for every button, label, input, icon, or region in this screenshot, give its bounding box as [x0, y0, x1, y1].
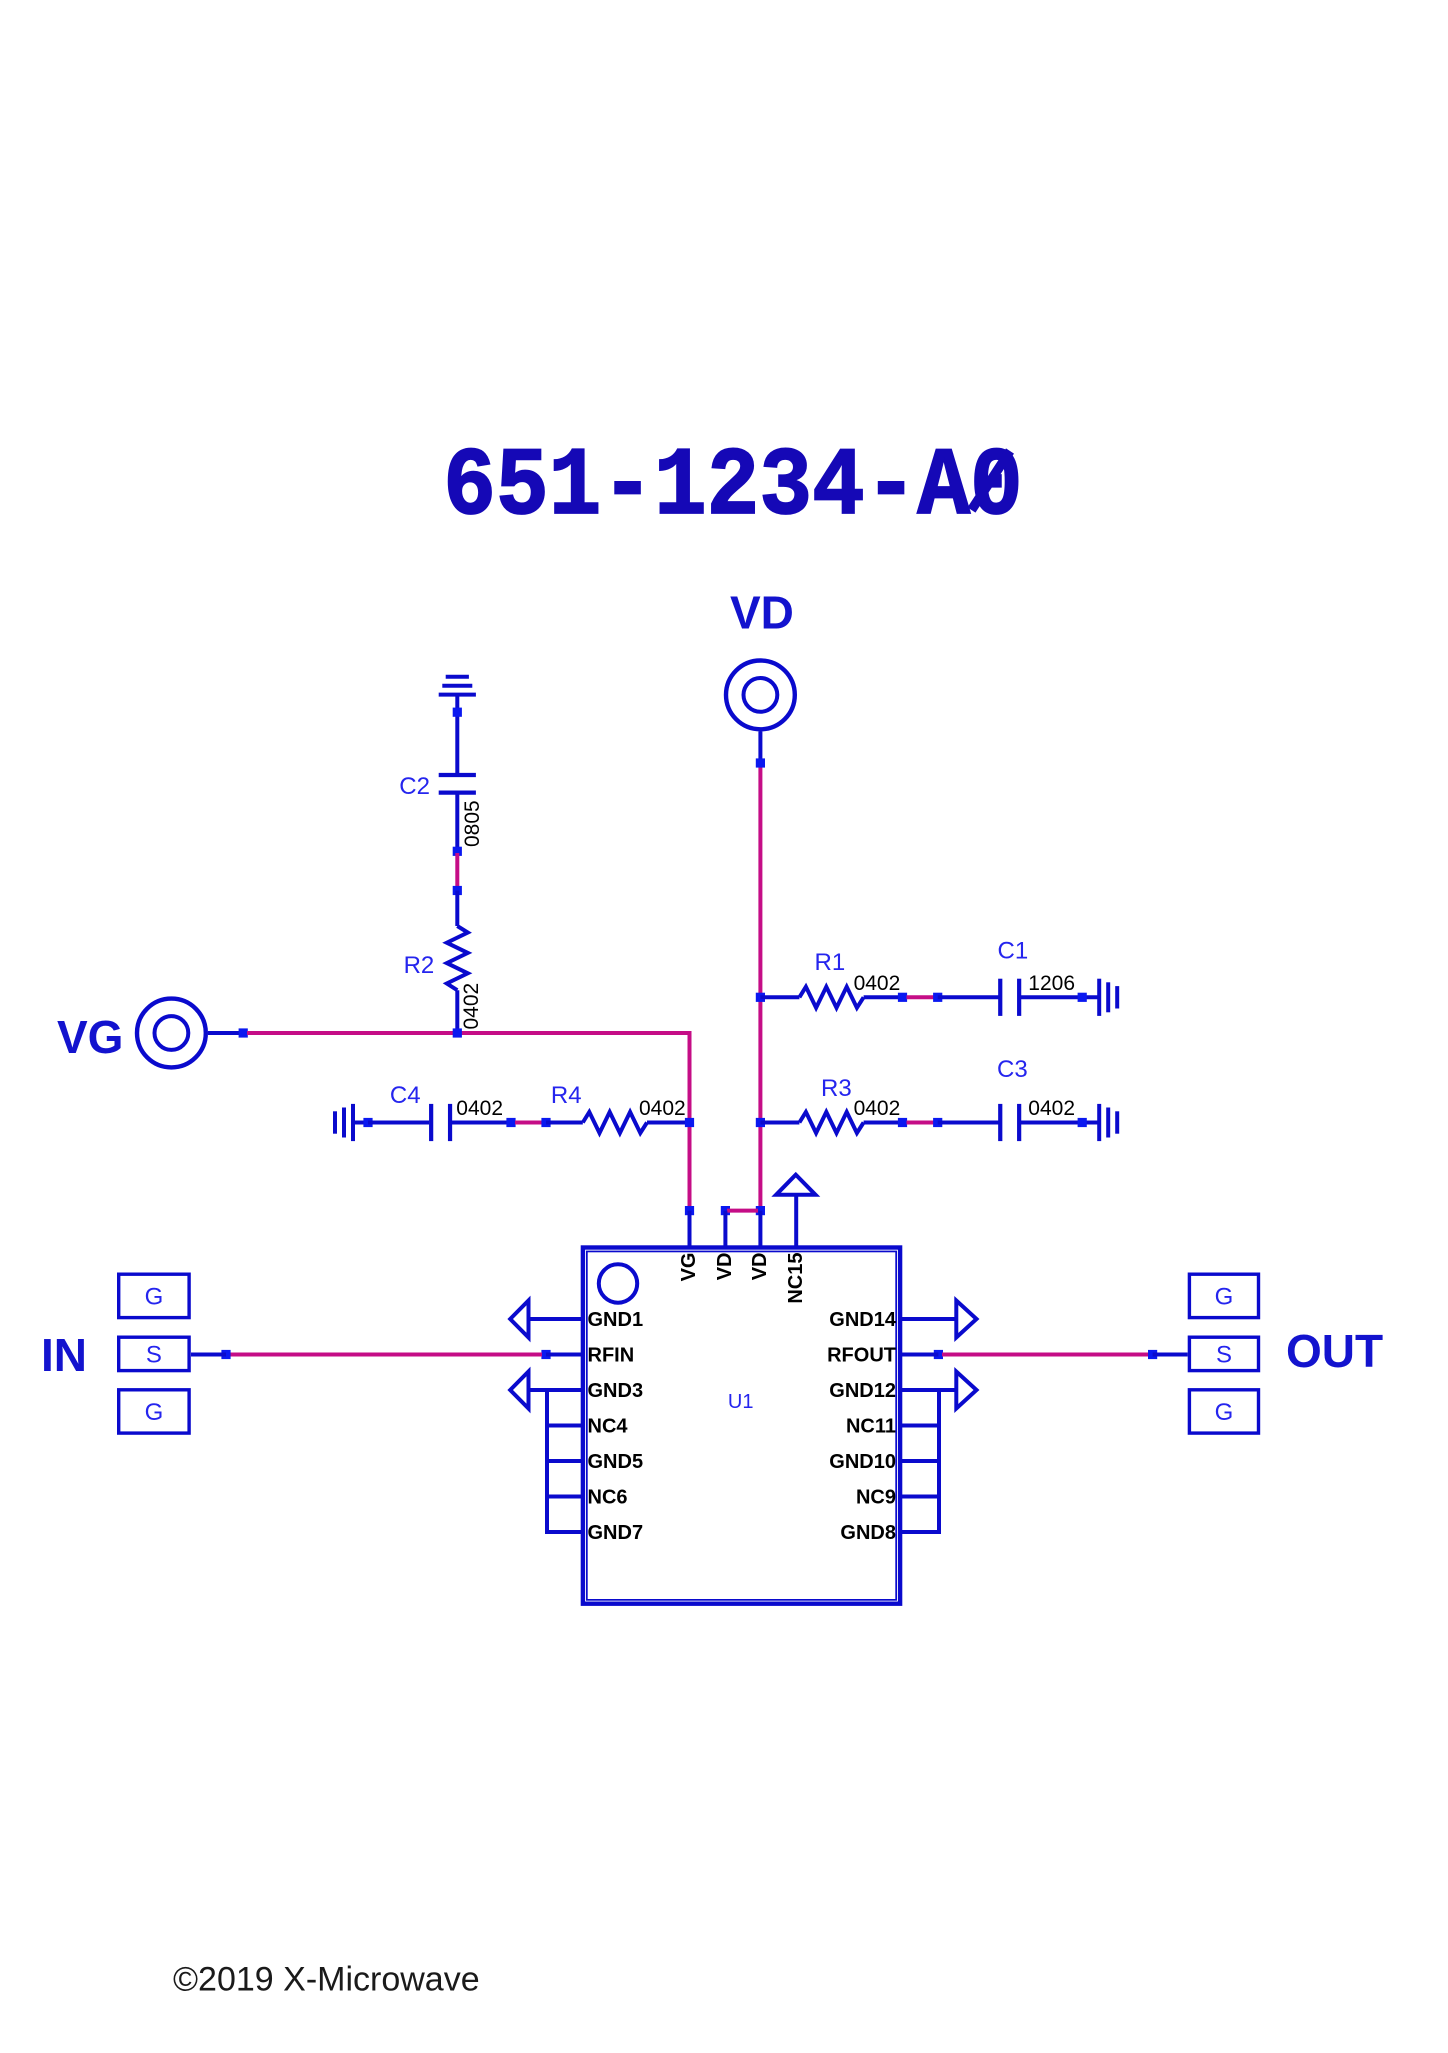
- svg-text:C1: C1: [998, 938, 1029, 965]
- svg-text:GND5: GND5: [588, 1451, 644, 1473]
- svg-text:©2019 X-Microwave: ©2019 X-Microwave: [173, 1961, 480, 1999]
- svg-text:C4: C4: [390, 1082, 421, 1109]
- svg-text:G: G: [145, 1399, 164, 1426]
- svg-text:GND10: GND10: [829, 1451, 896, 1473]
- svg-text:GND8: GND8: [840, 1522, 896, 1544]
- svg-text:G: G: [1215, 1399, 1234, 1426]
- svg-text:GND1: GND1: [588, 1309, 644, 1331]
- svg-text:0402: 0402: [456, 1097, 503, 1120]
- svg-text:G: G: [1215, 1284, 1234, 1311]
- svg-text:C2: C2: [399, 773, 430, 800]
- svg-text:0402: 0402: [639, 1097, 686, 1120]
- svg-text:1206: 1206: [1028, 972, 1075, 995]
- svg-text:0402: 0402: [460, 983, 483, 1030]
- svg-text:GND3: GND3: [588, 1380, 644, 1402]
- svg-text:0402: 0402: [1028, 1097, 1075, 1120]
- svg-text:RFIN: RFIN: [588, 1344, 635, 1366]
- svg-text:S: S: [1216, 1342, 1232, 1369]
- svg-text:U1: U1: [728, 1391, 754, 1413]
- svg-text:0402: 0402: [854, 972, 901, 995]
- svg-text:C3: C3: [997, 1056, 1028, 1083]
- svg-text:NC4: NC4: [588, 1415, 629, 1437]
- svg-text:GND14: GND14: [829, 1309, 897, 1331]
- svg-text:0805: 0805: [461, 800, 484, 847]
- svg-text:R3: R3: [821, 1075, 852, 1102]
- svg-text:VD: VD: [730, 587, 794, 639]
- svg-text:G: G: [145, 1284, 164, 1311]
- svg-text:NC9: NC9: [856, 1486, 896, 1508]
- svg-text:VG: VG: [57, 1011, 123, 1063]
- svg-text:GND7: GND7: [588, 1522, 644, 1544]
- svg-text:NC6: NC6: [588, 1486, 628, 1508]
- svg-text:S: S: [146, 1342, 162, 1369]
- svg-text:RFOUT: RFOUT: [827, 1344, 896, 1366]
- svg-text:NC15: NC15: [785, 1253, 807, 1304]
- svg-text:VD: VD: [714, 1253, 736, 1281]
- svg-text:IN: IN: [41, 1329, 87, 1381]
- svg-text:VD: VD: [749, 1253, 771, 1281]
- svg-text:R1: R1: [815, 949, 846, 976]
- svg-text:OUT: OUT: [1286, 1325, 1383, 1377]
- svg-text:NC11: NC11: [846, 1415, 896, 1437]
- svg-text:0402: 0402: [854, 1097, 901, 1120]
- svg-text:GND12: GND12: [829, 1380, 896, 1402]
- svg-text:651-1234-A0: 651-1234-A0: [443, 432, 1022, 542]
- svg-text:R4: R4: [551, 1082, 582, 1109]
- svg-text:R2: R2: [404, 952, 435, 979]
- svg-text:VG: VG: [678, 1253, 700, 1282]
